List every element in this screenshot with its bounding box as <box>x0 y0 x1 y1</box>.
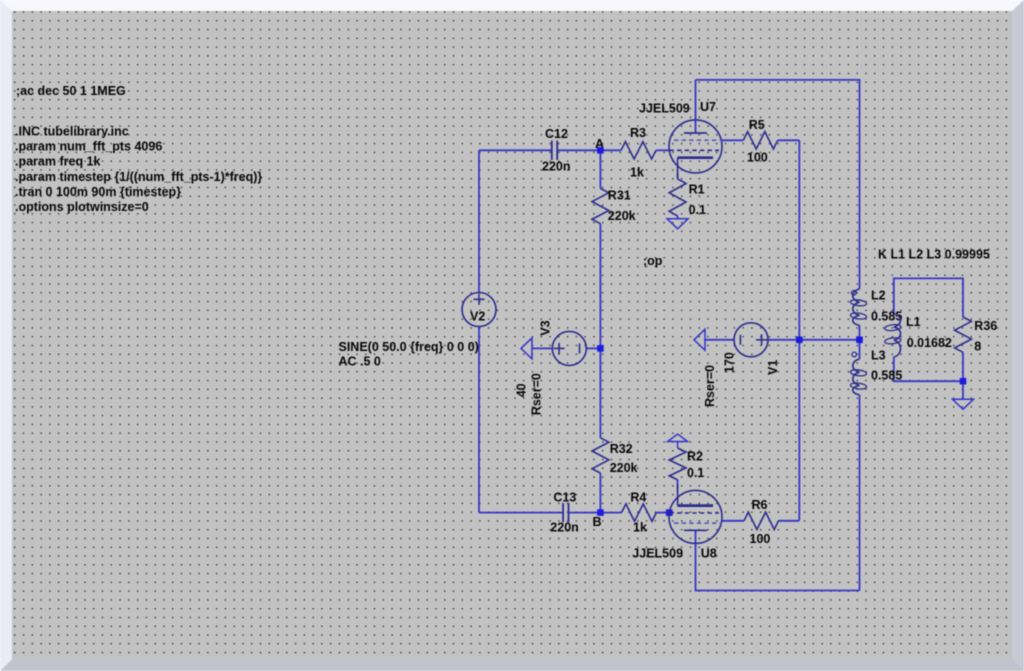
junction R36 bottom <box>960 378 967 385</box>
svg-text:R36: R36 <box>974 319 997 333</box>
voltage source V3 <box>552 331 586 365</box>
R2 ground lead <box>677 442 679 449</box>
svg-text:R4: R4 <box>630 490 646 504</box>
wire U7 screen to R5 <box>722 139 743 141</box>
junction V3 output <box>597 345 604 352</box>
ground below R1 <box>667 219 688 229</box>
svg-text:AC .5 0: AC .5 0 <box>339 354 381 368</box>
resistor R4 <box>622 504 657 521</box>
wire L1 bottom rail <box>894 357 963 381</box>
svg-text:.param freq 1k: .param freq 1k <box>15 155 101 169</box>
svg-text:V2: V2 <box>470 310 485 324</box>
wire V1 to center tap <box>768 339 860 341</box>
resistor R32 <box>592 438 609 473</box>
resistor R31 <box>592 188 609 223</box>
wire V3 to mid junction <box>586 347 600 349</box>
svg-text:0.1: 0.1 <box>687 466 704 480</box>
svg-text:R1: R1 <box>689 183 705 197</box>
junction node B <box>597 509 604 516</box>
svg-text:SINE(0 50.0 {freq} 0 0 0): SINE(0 50.0 {freq} 0 0 0) <box>339 340 479 354</box>
resistor R2 <box>669 448 686 480</box>
svg-text:.param num_fft_pts 4096: .param num_fft_pts 4096 <box>15 140 162 154</box>
wire V3 ground lead <box>532 347 552 349</box>
svg-text:;op: ;op <box>643 254 663 268</box>
svg-text:0.1: 0.1 <box>689 203 706 217</box>
svg-text:1k: 1k <box>630 166 644 180</box>
wire bottom rail to U8 plate <box>696 530 860 591</box>
svg-text:220n: 220n <box>542 160 571 174</box>
svg-text:;ac dec 50 1 1MEG: ;ac dec 50 1 1MEG <box>16 84 126 98</box>
wire C12 to node A <box>557 149 621 151</box>
wire L3 bottom to bottom rail <box>859 395 861 591</box>
wire R6 to right rail <box>779 520 800 522</box>
svg-text:R6: R6 <box>752 498 768 512</box>
svg-text:220k: 220k <box>610 461 638 475</box>
wire C13 row left <box>479 512 563 514</box>
svg-text:L3: L3 <box>871 349 886 363</box>
svg-text:V1: V1 <box>766 360 780 375</box>
wire center tap to L3 top <box>859 340 861 359</box>
wire R31 to V3 junction <box>599 224 601 349</box>
wire C12 row left <box>479 149 552 151</box>
svg-text:Rser=0: Rser=0 <box>530 373 544 415</box>
svg-text:170: 170 <box>723 352 737 373</box>
svg-text:R32: R32 <box>610 442 633 456</box>
resistor R1 <box>669 179 686 216</box>
svg-text:100: 100 <box>750 532 771 546</box>
inductor L2 <box>853 289 860 325</box>
svg-text:U8: U8 <box>701 547 717 561</box>
wire V2 top vertical <box>478 150 480 292</box>
svg-text:8: 8 <box>974 340 981 354</box>
svg-text:1k: 1k <box>633 520 647 534</box>
L3 phase dot <box>852 352 857 357</box>
svg-text:0.01682: 0.01682 <box>907 336 952 350</box>
wire V3 junction to R32 <box>599 348 601 437</box>
svg-text:R2: R2 <box>687 449 703 463</box>
wire V2 bottom vertical <box>478 327 480 513</box>
ground below R36 <box>953 399 974 409</box>
svg-text:0.585: 0.585 <box>871 369 902 383</box>
svg-text:R5: R5 <box>749 118 765 132</box>
svg-text:R31: R31 <box>608 189 631 203</box>
wire L2 bottom to center tap <box>859 326 861 340</box>
wire node A to R31 <box>599 150 601 188</box>
svg-text:K L1 L2 L3 0.99995: K L1 L2 L3 0.99995 <box>878 248 990 262</box>
svg-text:JJEL509: JJEL509 <box>639 102 690 116</box>
junction center tap <box>856 337 863 344</box>
capacitor C12 <box>551 141 553 160</box>
junction U8 grid <box>666 509 673 516</box>
capacitor C13 <box>562 503 564 522</box>
voltage source V2 <box>462 293 496 327</box>
wire R1 to ground <box>677 216 679 219</box>
svg-text:U7: U7 <box>700 100 716 114</box>
frame bevel left band <box>0 0 12 671</box>
svg-text:L1: L1 <box>906 315 921 329</box>
wire V1 ground lead <box>704 339 734 341</box>
resistor R36 <box>955 317 972 352</box>
resistor R5 <box>743 132 777 149</box>
svg-text:Rser=0: Rser=0 <box>703 365 717 407</box>
wire R5 to right rail <box>778 139 800 141</box>
wire U7 cathode to R1 <box>677 173 679 179</box>
wire R3 to U7 grid <box>656 149 670 151</box>
junction right rail V1 <box>796 337 803 344</box>
svg-text:220k: 220k <box>608 209 636 223</box>
wire R4 to U8 grid junction <box>656 512 670 514</box>
svg-text:JJEL509: JJEL509 <box>632 547 683 561</box>
svg-text:C13: C13 <box>553 490 576 504</box>
wire U7 plate lead <box>695 80 697 133</box>
junction node A <box>597 147 604 154</box>
svg-text:40: 40 <box>515 383 529 397</box>
voltage source V1 <box>734 323 768 357</box>
frame bevel top band <box>0 0 1024 11</box>
wire right rail vertical <box>798 140 800 521</box>
tube U7 <box>669 120 722 173</box>
svg-text:L2: L2 <box>871 289 886 303</box>
svg-text:100: 100 <box>747 151 768 165</box>
V1 ground arrow <box>694 329 705 350</box>
svg-text:0.585: 0.585 <box>871 309 902 323</box>
frame bevel bottom band <box>0 659 1024 671</box>
inductor L1 <box>894 314 901 357</box>
svg-text:.tran 0 100m 90m {timestep}: .tran 0 100m 90m {timestep} <box>15 185 181 199</box>
svg-text:.param timestep {1/((num_fft_p: .param timestep {1/((num_fft_pts-1)*freq… <box>15 170 262 184</box>
resistor R6 <box>744 512 779 529</box>
svg-text:220n: 220n <box>550 520 579 534</box>
svg-text:.options plotwinsize=0: .options plotwinsize=0 <box>15 200 149 214</box>
svg-text:.INC tubelibrary.inc: .INC tubelibrary.inc <box>15 125 129 139</box>
wire U8 cathode to R2 <box>677 480 679 490</box>
wire R36 to bottom junction and ground <box>962 352 964 399</box>
L2 phase dot <box>852 291 857 296</box>
svg-text:B: B <box>593 515 602 529</box>
V3 ground arrow <box>521 338 532 359</box>
resistor R3 <box>621 142 656 159</box>
svg-text:V3: V3 <box>539 320 553 335</box>
wire R32 to node B <box>599 473 601 512</box>
svg-text:R3: R3 <box>630 126 646 140</box>
tube U8 <box>669 490 722 543</box>
frame bevel right band <box>1012 0 1024 671</box>
svg-text:C12: C12 <box>545 127 568 141</box>
wire C13 to R4 <box>568 512 621 514</box>
inductor L3 <box>853 359 860 395</box>
ground above R2 <box>668 434 688 442</box>
wire U8 screen to R6 <box>722 520 744 522</box>
wire L1 top to R36 <box>894 278 963 317</box>
wire top rail <box>696 80 860 289</box>
